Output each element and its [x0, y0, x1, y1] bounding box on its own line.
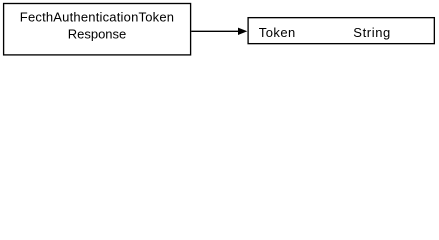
wire arrow shaft [191, 30, 239, 32]
box FecthAuthenticationTokenResponse [4, 4, 191, 55]
arrowhead [238, 28, 247, 35]
box Token:String [248, 18, 434, 44]
svg-text:Token: Token [259, 25, 296, 40]
svg-text:String: String [353, 25, 391, 40]
svg-text:Response: Response [68, 27, 127, 42]
svg-text:FecthAuthenticationToken: FecthAuthenticationToken [20, 10, 174, 25]
